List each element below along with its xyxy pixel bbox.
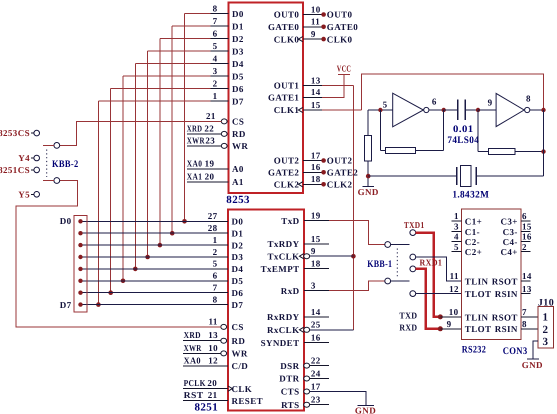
8251 pin 3 RxD stub	[304, 290, 329, 292]
svg-text:D4: D4	[232, 264, 244, 274]
svg-text:GATE2: GATE2	[327, 168, 358, 178]
junction inverter2 input	[476, 108, 480, 112]
8251 pin 27 D0 stub	[211, 220, 229, 222]
wire D3 to bus connector	[81, 256, 211, 258]
8251 pin 17 CTS bubble	[304, 389, 310, 394]
svg-text:4: 4	[454, 232, 459, 242]
connector J10 body	[538, 307, 554, 349]
8251 pin 5 D4 stub	[211, 268, 229, 270]
svg-text:D7: D7	[232, 300, 244, 310]
wire D0 to bus connector	[81, 220, 211, 222]
svg-text:6: 6	[213, 29, 218, 39]
inverter U3B bubble	[525, 107, 530, 112]
svg-text:CLK2: CLK2	[327, 180, 353, 190]
RS232 pin 4 C2- stub	[452, 240, 462, 242]
svg-text:C2+: C2+	[465, 247, 482, 257]
node CLK2 terminal dot	[321, 182, 326, 187]
junction feedback right	[541, 149, 545, 153]
wire terminal to TLIN pin 11	[416, 257, 462, 281]
IC U1 8253 body	[229, 3, 303, 194]
svg-text:RD: RD	[232, 336, 246, 346]
svg-text:RXD1: RXD1	[420, 258, 443, 268]
svg-text:XA0: XA0	[184, 355, 201, 365]
svg-text:1.8432M: 1.8432M	[452, 190, 489, 201]
svg-text:17: 17	[311, 150, 321, 160]
svg-text:TLIN: TLIN	[465, 312, 489, 322]
svg-text:GATE0: GATE0	[268, 22, 299, 32]
ground GND at CTS	[358, 404, 375, 406]
svg-text:CLK1: CLK1	[274, 105, 300, 115]
svg-text:3: 3	[311, 280, 316, 290]
svg-text:21: 21	[206, 111, 216, 121]
terminal Y4	[34, 155, 40, 161]
svg-text:C1-: C1-	[465, 227, 480, 237]
svg-text:RESET: RESET	[232, 396, 264, 406]
wire KBB-1 pin2 stub	[391, 280, 410, 282]
svg-text:5: 5	[383, 99, 388, 109]
svg-text:5: 5	[213, 259, 218, 269]
svg-text:WR: WR	[232, 141, 248, 151]
wire data bus D0 vertical	[184, 14, 186, 222]
svg-text:16: 16	[311, 162, 321, 172]
8253 pin 7 D1 stub	[211, 25, 229, 27]
svg-text:D3: D3	[232, 252, 244, 262]
svg-text:C3+: C3+	[500, 217, 517, 227]
wire inverter1 input node	[368, 109, 393, 111]
svg-text:J10: J10	[538, 298, 554, 309]
junction D2 at 8251	[158, 243, 163, 248]
8253 pin 2 D6 stub	[211, 88, 229, 90]
svg-text:XWR: XWR	[187, 135, 205, 145]
svg-text:PCLK: PCLK	[184, 378, 206, 388]
8251 pin 12 C/D	[183, 365, 228, 367]
jumper dotted link KBB-2	[46, 150, 48, 178]
junction D6 bus connector	[78, 291, 82, 295]
RS232 pin 7 RSOT wire to J10	[521, 316, 538, 318]
op-amp U3B inverter 74LS04	[496, 93, 524, 126]
connector KBB-2 pin 1	[54, 143, 60, 149]
svg-text:RSIN: RSIN	[495, 324, 518, 334]
svg-text:18: 18	[311, 258, 321, 268]
8251 pin 9 TxCLK bubble	[304, 254, 310, 259]
node OUT2 terminal dot	[321, 158, 326, 163]
svg-text:1: 1	[213, 91, 218, 101]
svg-text:20: 20	[205, 171, 215, 181]
wire data bus D5 horizontal	[123, 75, 211, 77]
RS232 pin 1 C1+ stub	[452, 220, 462, 222]
svg-text:Y5: Y5	[18, 189, 30, 199]
svg-text:10: 10	[311, 4, 321, 14]
wire XWR	[183, 352, 221, 354]
wire J10 pin3 to ground	[533, 341, 538, 359]
svg-text:14: 14	[311, 307, 321, 317]
svg-text:13: 13	[208, 330, 218, 340]
crystal Y1 1.8432M	[368, 175, 457, 177]
wire data bus D4 vertical	[134, 64, 136, 269]
junction D2 bus connector	[78, 243, 82, 247]
inverter U3A bubble	[424, 107, 429, 112]
svg-text:A1: A1	[232, 177, 244, 187]
svg-text:16: 16	[522, 232, 532, 242]
svg-text:GND: GND	[358, 187, 379, 197]
svg-text:RxCLK: RxCLK	[267, 325, 300, 335]
svg-text:D0: D0	[60, 216, 72, 226]
svg-text:5: 5	[213, 41, 218, 51]
svg-text:11: 11	[450, 271, 459, 281]
8251 pin 24 DTR bubble	[304, 376, 310, 381]
svg-text:11: 11	[311, 17, 320, 27]
svg-text:RS232: RS232	[462, 344, 487, 355]
junction D5 at 8251	[121, 279, 126, 284]
svg-text:CLK0: CLK0	[327, 34, 353, 44]
svg-text:15: 15	[311, 234, 321, 244]
junction inverter2 output	[541, 108, 545, 112]
junction D1 bus connector	[78, 231, 82, 235]
svg-text:7: 7	[213, 283, 218, 293]
8253 pin 3 D5 stub	[211, 75, 229, 77]
junction D6 at 8251	[108, 290, 113, 295]
8253 pin 20 A1	[187, 181, 229, 183]
wire D2 to bus connector	[81, 244, 211, 246]
svg-text:OUT0: OUT0	[274, 10, 300, 20]
svg-text:13: 13	[311, 75, 321, 85]
8251 pin 6 D5 stub	[211, 280, 229, 282]
svg-text:D1: D1	[232, 228, 244, 238]
8253 pin 13 OUT1 stub	[303, 85, 322, 87]
wire data bus D4 horizontal	[135, 63, 210, 65]
wire RXD1 to RS232 TLOT	[416, 269, 441, 329]
wire output vertical to crystal	[543, 110, 545, 176]
svg-text:9: 9	[447, 319, 452, 329]
wire data bus D7 vertical	[97, 101, 99, 304]
svg-text:8: 8	[213, 294, 218, 304]
svg-text:0.01: 0.01	[453, 124, 474, 135]
ground GND oscillator	[362, 185, 374, 187]
terminal 8251CS	[34, 167, 40, 173]
svg-text:RTS: RTS	[281, 400, 299, 410]
wire RxD to KBB-1 pin2	[329, 281, 385, 291]
8251 pin 7 D6 stub	[211, 292, 229, 294]
svg-text:D2: D2	[232, 34, 244, 44]
svg-text:7: 7	[522, 307, 527, 317]
8253 pin 19 A0	[187, 168, 229, 170]
RS232 pin 6 C3+ stub	[521, 220, 530, 222]
svg-text:19: 19	[205, 158, 215, 168]
wire GATE1 to VCC	[322, 75, 344, 98]
junction inverter1 output	[442, 108, 446, 112]
RS232 pin 16 C4- stub	[521, 240, 530, 242]
svg-text:13: 13	[522, 284, 532, 294]
junction crystal rail left	[366, 174, 371, 179]
svg-text:15: 15	[522, 222, 532, 232]
svg-text:GATE0: GATE0	[327, 22, 358, 32]
clock marker CLK1	[298, 107, 302, 112]
svg-text:19: 19	[311, 211, 321, 221]
svg-text:3: 3	[543, 336, 549, 348]
svg-text:CTS: CTS	[281, 387, 300, 397]
svg-text:20: 20	[207, 378, 217, 388]
svg-text:10: 10	[449, 307, 459, 317]
svg-text:24: 24	[311, 368, 321, 378]
8251 pin 16 SYNDET stub	[304, 342, 329, 344]
resistor R1 vertical	[365, 136, 372, 162]
wire D5 to bus connector	[81, 280, 211, 282]
wire resistor to ground rail	[367, 161, 369, 186]
svg-text:6: 6	[432, 96, 437, 106]
svg-text:23: 23	[311, 395, 321, 405]
RS232 pin 15 C3- stub	[521, 230, 530, 232]
svg-text:CS: CS	[232, 322, 244, 332]
junction D5 bus connector	[78, 279, 82, 283]
wire inverter2 input	[478, 109, 496, 111]
wire TXD1 to RS232 TLIN	[416, 233, 441, 317]
junction D0 bus connector	[78, 219, 82, 223]
svg-text:1: 1	[213, 235, 218, 245]
svg-text:8253CS: 8253CS	[0, 128, 30, 138]
svg-text:TLOT: TLOT	[465, 289, 492, 299]
capacitor C1 0.01	[444, 109, 458, 111]
wire CS net to KBB-2	[60, 121, 222, 145]
svg-text:WR: WR	[232, 349, 248, 359]
wire D4 to bus connector	[81, 268, 211, 270]
RS232 pin 2 C4+ stub	[521, 251, 530, 253]
svg-text:7: 7	[213, 16, 218, 26]
svg-text:4: 4	[213, 54, 218, 64]
wire data bus D2 horizontal	[160, 38, 211, 40]
8253 pin 8 D0 stub	[211, 13, 229, 15]
svg-text:C2-: C2-	[465, 237, 480, 247]
svg-text:25: 25	[311, 320, 321, 330]
svg-text:D4: D4	[232, 59, 244, 69]
wire data bus D1 vertical	[171, 26, 173, 233]
svg-text:DSR: DSR	[280, 361, 299, 371]
8253 pin 4 D4 stub	[211, 63, 229, 65]
svg-text:27: 27	[208, 211, 218, 221]
junction D7 bus connector	[78, 302, 82, 306]
svg-text:XRD: XRD	[187, 123, 203, 133]
svg-text:12: 12	[449, 284, 459, 294]
svg-text:C4-: C4-	[503, 237, 518, 247]
8253 pin 9 CLK0 stub	[303, 38, 322, 40]
svg-text:3: 3	[454, 222, 459, 232]
junction RXD1-TLOT	[438, 326, 443, 331]
wire TxCLK to OUT1	[310, 255, 354, 257]
wire oscillator feedback loop	[361, 74, 543, 110]
wire terminal to TLOT pin 12	[416, 293, 462, 295]
svg-text:17: 17	[311, 381, 321, 391]
wire CTS to ground	[310, 392, 366, 406]
svg-text:C4+: C4+	[500, 247, 517, 257]
svg-text:RxD: RxD	[281, 286, 300, 296]
svg-text:14: 14	[311, 87, 321, 97]
svg-text:Y4: Y4	[18, 153, 30, 163]
8251 pin 20 CLK	[183, 388, 228, 390]
wire data bus D0 horizontal	[185, 13, 211, 15]
8251 pin 2 D3 stub	[211, 256, 229, 258]
wire KBB-1 pin1 stub	[391, 244, 410, 246]
wire TxD to KBB-1 pin1	[329, 221, 385, 245]
svg-text:8: 8	[526, 93, 531, 103]
svg-text:TLOT: TLOT	[465, 324, 492, 334]
RS232 pin 13 RSIN stub	[521, 293, 530, 295]
svg-text:2: 2	[522, 242, 527, 252]
wire data bus D2 vertical	[159, 39, 161, 245]
wire data bus D3 vertical	[147, 51, 149, 257]
svg-text:TxEMPT: TxEMPT	[261, 264, 300, 274]
svg-text:CLK0: CLK0	[274, 34, 300, 44]
clock marker CLK	[228, 386, 232, 391]
IC U4 RS232 body	[462, 209, 521, 340]
svg-text:6: 6	[213, 271, 218, 281]
svg-text:D2: D2	[232, 240, 244, 250]
wire XWR	[187, 145, 222, 147]
node GATE2 terminal dot	[321, 170, 326, 175]
wire D1 to bus connector	[81, 232, 211, 234]
junction D4 bus connector	[78, 267, 82, 271]
svg-text:XWR: XWR	[184, 343, 202, 353]
svg-text:16: 16	[311, 333, 321, 343]
terminal 8253CS	[34, 130, 40, 136]
svg-text:CLK: CLK	[232, 384, 253, 394]
svg-text:11: 11	[208, 316, 217, 326]
svg-text:21: 21	[208, 390, 218, 400]
8253 pin 11 GATE0 stub	[303, 26, 322, 28]
wire inverter2 output	[530, 109, 544, 111]
wire OUT1 vertical to TxCLK/RxCLK	[352, 86, 354, 330]
wire RxCLK to OUT1	[310, 329, 354, 331]
svg-text:TXD1: TXD1	[404, 220, 425, 230]
svg-text:23: 23	[205, 135, 215, 145]
svg-text:RSOT: RSOT	[492, 312, 518, 322]
svg-text:RD: RD	[232, 129, 246, 139]
svg-text:22: 22	[311, 355, 321, 365]
svg-text:TLIN: TLIN	[465, 276, 489, 286]
wire data bus D1 horizontal	[172, 25, 210, 27]
svg-text:GND: GND	[355, 406, 376, 414]
svg-text:RXD: RXD	[399, 322, 417, 332]
8251 pin 18 TxEMPT stub	[304, 268, 329, 270]
svg-text:CON3: CON3	[503, 346, 528, 357]
8253 pin 10 OUT0 stub	[303, 14, 322, 16]
junction D0 at 8251	[182, 219, 187, 224]
svg-text:VCC: VCC	[337, 64, 352, 74]
clock marker TxCLK	[299, 254, 303, 259]
svg-text:KBB-2: KBB-2	[52, 159, 79, 170]
svg-text:D6: D6	[232, 84, 244, 94]
svg-text:XA1: XA1	[187, 171, 203, 181]
clock marker RxCLK	[299, 327, 303, 332]
svg-text:8251: 8251	[195, 402, 219, 414]
svg-text:OUT2: OUT2	[327, 156, 353, 166]
wire CLK1	[322, 109, 361, 111]
svg-text:C/D: C/D	[232, 361, 249, 371]
svg-text:9: 9	[488, 98, 493, 108]
wire data bus D6 horizontal	[111, 88, 211, 90]
junction OUT1-TxCLK	[351, 254, 356, 259]
svg-text:RSIN: RSIN	[495, 289, 518, 299]
resistor R2 feedback inverter1	[379, 110, 381, 151]
junction D1 at 8251	[170, 231, 175, 236]
svg-text:8251CS: 8251CS	[0, 165, 30, 175]
svg-text:GATE2: GATE2	[268, 168, 299, 178]
8251 pin 14 RxRDY stub	[304, 316, 329, 318]
IC U2 8251 body	[228, 210, 304, 411]
svg-text:22: 22	[204, 123, 214, 133]
svg-text:GND: GND	[522, 360, 543, 370]
bus connector bracket D0-D7	[74, 215, 87, 312]
svg-text:D5: D5	[232, 276, 244, 286]
svg-text:KBB-1: KBB-1	[367, 259, 392, 270]
8253 pin 23 WR bubble	[221, 143, 227, 148]
8251 pin 23 RTS bubble	[304, 402, 310, 407]
connector KBB-1 pin 1	[385, 242, 391, 248]
8251 pin 10 WR bubble	[221, 351, 227, 356]
svg-text:CS: CS	[232, 117, 244, 127]
svg-text:OUT1: OUT1	[274, 81, 300, 91]
svg-text:C1+: C1+	[465, 217, 482, 227]
wire XRD	[187, 133, 222, 135]
junction D7 at 8251	[96, 302, 101, 307]
junction TXD1-TLIN	[438, 314, 443, 319]
svg-text:TXD: TXD	[399, 310, 417, 320]
wire CS net to KBB-2 pin2	[16, 181, 221, 327]
svg-text:RxRDY: RxRDY	[267, 312, 300, 322]
svg-text:15: 15	[311, 100, 321, 110]
op-amp U3A inverter 74LS04	[393, 93, 424, 127]
8253 pin 22 RD bubble	[221, 131, 227, 136]
wire inverter1 output	[429, 109, 444, 111]
wire to TLOT pin 9	[440, 328, 461, 330]
8251 pin 15 TxRDY stub	[304, 243, 329, 245]
clock marker CLK2	[298, 182, 302, 187]
svg-text:XRD: XRD	[184, 330, 201, 340]
connector KBB-2 pin 2	[54, 178, 60, 184]
terminal RXD1	[410, 266, 416, 272]
wire data bus D7 horizontal	[98, 100, 210, 102]
svg-text:SYNDET: SYNDET	[261, 338, 300, 348]
svg-text:3: 3	[213, 66, 218, 76]
wire D7 to bus connector	[81, 304, 211, 306]
8251 pin 28 D1 stub	[211, 232, 229, 234]
8253 pin 18 CLK2 stub	[303, 183, 322, 185]
8251 pin 22 DSR bubble	[304, 363, 310, 368]
svg-text:9: 9	[311, 246, 316, 256]
8253 pin 21 CS bubble	[221, 119, 227, 124]
svg-text:74LS04: 74LS04	[447, 135, 479, 146]
svg-text:14: 14	[522, 271, 532, 281]
8253 pin 6 D2 stub	[211, 38, 229, 40]
terminal mid lower	[410, 291, 416, 297]
8253 pin 17 OUT2 stub	[303, 160, 322, 162]
RS232 pin 14 RSOT stub	[521, 280, 530, 282]
svg-text:RST: RST	[184, 390, 204, 400]
svg-text:TxCLK: TxCLK	[267, 251, 299, 261]
svg-text:A0: A0	[232, 164, 244, 174]
resistor R3 feedback inverter2	[477, 110, 479, 152]
svg-text:8253: 8253	[226, 194, 250, 206]
svg-text:RSOT: RSOT	[492, 276, 518, 286]
wire to TLIN pin 10	[440, 316, 461, 318]
svg-text:18: 18	[311, 174, 321, 184]
svg-text:GATE1: GATE1	[268, 93, 299, 103]
jumper dotted link KBB-1	[396, 249, 398, 278]
wire data bus D5 vertical	[122, 76, 124, 281]
svg-text:D0: D0	[232, 9, 244, 19]
terminal mid upper	[410, 254, 416, 260]
svg-text:C3-: C3-	[503, 227, 518, 237]
svg-text:1: 1	[543, 312, 549, 324]
svg-text:10: 10	[208, 343, 218, 353]
